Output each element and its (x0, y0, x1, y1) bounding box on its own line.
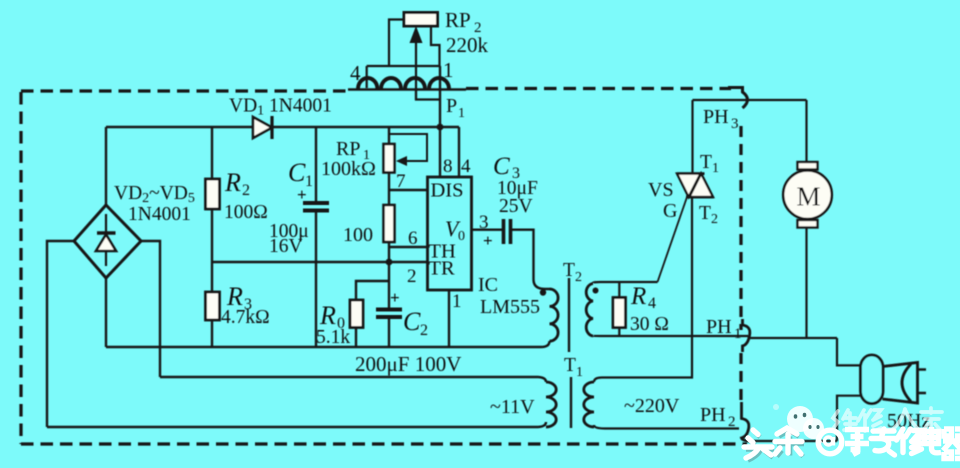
svg-text:C: C (493, 153, 510, 180)
capacitor C3 (504, 219, 511, 244)
svg-text:2: 2 (407, 266, 417, 287)
svg-text:IC: IC (478, 274, 498, 296)
dashed enclosure border top-left (21, 89, 350, 92)
svg-text:LM555: LM555 (480, 296, 540, 318)
wire Vcc rail y=127 (106, 126, 459, 128)
svg-text:25V: 25V (499, 196, 533, 217)
potentiometer RP1 body (384, 144, 395, 173)
potentiometer RP2 body (404, 13, 438, 27)
svg-text:1: 1 (458, 106, 465, 121)
wire R3 bottom lead (211, 319, 213, 347)
svg-text:T: T (564, 355, 576, 376)
svg-text:2: 2 (420, 322, 428, 339)
RP2 wiper wire with arrow (415, 40, 417, 100)
wire AC line to T1 ~11V winding top (160, 377, 546, 382)
glyph 头 (744, 430, 772, 458)
wire T2 secondary bottom / PH1 node line (593, 335, 748, 337)
wire bridge right vertex to x=160 column (140, 241, 160, 377)
svg-text:VD1 1N4001: VD1 1N4001 (229, 96, 332, 119)
svg-text:VS: VS (648, 179, 674, 201)
watermark ghost text 维修人家 (832, 408, 942, 432)
svg-text:M: M (797, 182, 821, 212)
svg-text:30 Ω: 30 Ω (630, 314, 669, 335)
svg-text:DIS: DIS (431, 180, 464, 202)
wire 100 resistor bottom (388, 242, 390, 262)
svg-text:2: 2 (575, 270, 582, 285)
triac VS (594, 100, 714, 382)
glyph 器 (943, 429, 960, 459)
inductor P1 baseline (348, 88, 466, 91)
wire gate diagonal to triac (658, 197, 688, 282)
IC U1 LM555 box (428, 177, 472, 290)
glyph 电 (925, 427, 942, 453)
svg-text:P: P (446, 95, 457, 117)
wire R0 branch (356, 281, 389, 301)
bridge rectifier VD2~VD5 (74, 205, 141, 278)
wire bridge left vertex to left column (47, 241, 75, 427)
wire pin3 output (471, 228, 503, 230)
svg-text:100Ω: 100Ω (224, 202, 268, 223)
diode VD1 (253, 116, 272, 139)
plug branch vertical upper (837, 338, 860, 365)
dashed enclosure border bottom (21, 442, 747, 445)
wire PH2 to plug lower line (750, 440, 837, 442)
svg-text:PH: PH (706, 316, 732, 338)
svg-text:PH: PH (703, 106, 729, 128)
wire ground bus y=347 (106, 341, 550, 347)
svg-text:~220V: ~220V (624, 395, 680, 417)
svg-text:4: 4 (350, 61, 361, 85)
svg-text:2: 2 (728, 414, 736, 430)
wire bottom AC line to T1 ~11V winding bottom (47, 422, 546, 427)
svg-text:200μF 100V: 200μF 100V (355, 352, 461, 376)
motor M brushes (798, 162, 818, 170)
svg-text:1: 1 (443, 58, 454, 82)
glyph 哥 (845, 430, 869, 455)
resistor R2 (206, 179, 220, 209)
RP2 right terminal jog to terminal 1 (431, 26, 440, 66)
wire ~220V bottom to PH2 (594, 425, 739, 429)
wire C1 top lead (315, 127, 317, 202)
svg-text:1: 1 (712, 161, 719, 176)
svg-text:7: 7 (396, 171, 406, 192)
transformer T2 secondary winding (586, 284, 593, 337)
junction dot node Vcc/pin8 (437, 124, 444, 131)
motor M body (783, 170, 832, 219)
glyph 条 (775, 428, 802, 454)
wire pin4 vertical (458, 127, 460, 177)
svg-text:T: T (699, 203, 711, 224)
wire bridge top lead (105, 127, 107, 206)
wire PH3 node to triac and motor (693, 99, 807, 101)
wire C2 bottom lead (388, 316, 390, 347)
svg-text:C: C (288, 158, 306, 187)
plug pins (918, 370, 927, 394)
watermark headline shadow (746, 431, 804, 461)
wire pin8 vertical from coil terminal 1 (439, 66, 441, 177)
svg-text:4: 4 (648, 295, 656, 312)
wire R3 top lead (211, 262, 213, 293)
svg-text:R: R (319, 301, 336, 330)
wire R0 bottom lead (355, 327, 357, 347)
svg-text:6: 6 (408, 228, 418, 249)
glyph 修 (897, 429, 922, 454)
resistor R0 (350, 300, 363, 328)
resistor R4 (613, 298, 626, 328)
wire node down to C2 (388, 262, 390, 310)
T2 primary phase dot (540, 289, 546, 295)
wire R2 top lead (211, 127, 213, 180)
capacitor C1 (303, 203, 329, 211)
svg-text:3: 3 (731, 116, 739, 132)
transformer T1 core (570, 377, 572, 428)
wire node line y=262 R2/R3 to pin2 (212, 261, 428, 263)
svg-text:+: + (483, 231, 493, 250)
bridge inner diode (96, 214, 116, 266)
svg-text:1: 1 (734, 326, 742, 342)
svg-text:T: T (700, 152, 712, 173)
svg-text:G: G (663, 200, 677, 222)
svg-text:4.7kΩ: 4.7kΩ (221, 307, 270, 328)
motor M leads (805, 100, 807, 339)
terminal 4 drop wire (366, 66, 368, 88)
wire T2 secondary top to gate diagonal start (593, 282, 658, 283)
svg-text:100: 100 (343, 224, 373, 246)
svg-text:R: R (630, 283, 646, 310)
dashed enclosure border top-right (466, 87, 731, 90)
svg-text:TR: TR (429, 258, 456, 280)
svg-text:~11V: ~11V (490, 396, 535, 418)
svg-text:4: 4 (461, 156, 471, 177)
wire pin7 (389, 189, 428, 191)
svg-text:16V: 16V (269, 236, 303, 257)
svg-text:+: + (297, 185, 307, 204)
plug body cup (883, 363, 918, 404)
glyph @ (818, 430, 842, 454)
wire C3 to T2 primary (512, 230, 550, 289)
svg-text:100kΩ: 100kΩ (321, 158, 376, 180)
svg-text:3: 3 (479, 212, 489, 233)
svg-text:0: 0 (458, 229, 465, 244)
junction dot node pin2 (386, 259, 393, 266)
P1 tap wire to terminal 1 line (416, 89, 440, 100)
svg-text:2: 2 (242, 182, 250, 199)
connector PH1 (743, 319, 750, 352)
svg-text:RP: RP (445, 8, 471, 32)
svg-text:VD2~VD5: VD2~VD5 (114, 183, 195, 206)
inductor P1 humps (358, 78, 449, 89)
transformer T1 ~220V winding (584, 382, 594, 427)
svg-text:RP: RP (336, 138, 360, 160)
T2 secondary phase dot (593, 288, 599, 294)
plug branch vertical lower (837, 396, 860, 441)
resistor R3 (206, 292, 220, 320)
plug cord capsule (861, 355, 884, 404)
resistor 100 (384, 205, 395, 242)
wire C1 bottom lead (315, 211, 317, 347)
connector PH3 (728, 88, 748, 109)
watermark wechat logo (773, 404, 824, 443)
transformer T2 primary winding (550, 289, 559, 341)
svg-text:1N4001: 1N4001 (128, 204, 191, 225)
svg-text:2: 2 (711, 212, 718, 227)
connector PH2 (742, 402, 753, 441)
svg-text:R: R (224, 168, 241, 197)
svg-text:T: T (563, 260, 575, 281)
svg-text:PH: PH (700, 404, 726, 426)
wire RP1 top lead (388, 127, 390, 145)
transformer T1 ~11V winding (546, 382, 556, 427)
svg-text:1: 1 (576, 365, 583, 380)
dashed enclosure border right upper segment (739, 126, 742, 330)
svg-text:220k: 220k (446, 33, 489, 57)
wire pin6 (389, 246, 428, 248)
wire RP1 to 100 resistor (388, 172, 390, 206)
resistor R4 leads (618, 282, 620, 336)
svg-text:C: C (403, 307, 421, 336)
wire R2 bottom lead (211, 208, 213, 262)
wire PH1 to plug branch (748, 337, 837, 339)
svg-text:5.1k: 5.1k (316, 327, 350, 348)
svg-text:+: + (390, 288, 400, 307)
glyph 专 (871, 429, 896, 455)
RP2 left terminal wire (389, 20, 404, 67)
watermark headline text 头条@哥专修电器 (744, 427, 960, 459)
dashed enclosure border left (19, 92, 22, 444)
wire bridge bottom lead (105, 278, 107, 347)
svg-text:1: 1 (452, 291, 462, 312)
wire pin1 to ground bus (448, 290, 450, 347)
svg-text:8: 8 (443, 156, 453, 177)
capacitor C2 (376, 310, 402, 318)
dashed enclosure border right lower segment (739, 353, 742, 400)
potentiometer RP1 wiper arm (390, 134, 427, 161)
transformer T2 core (568, 278, 570, 352)
bus between coil terminals 4 and 1 (367, 65, 440, 67)
